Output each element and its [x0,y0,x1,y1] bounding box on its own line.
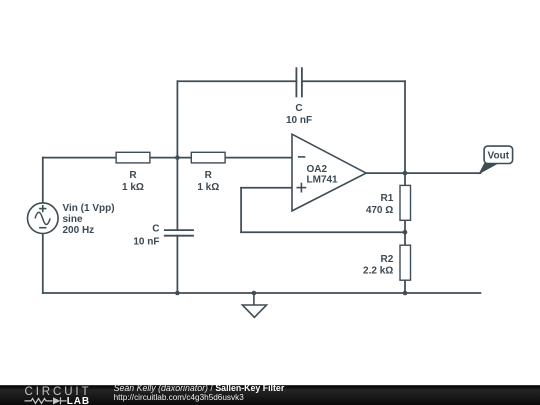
wire: top rail down to output node [404,81,406,173]
svg-text:R: R [205,170,213,181]
svg-text:2.2 kΩ: 2.2 kΩ [363,265,393,276]
svg-text:10 nF: 10 nF [286,115,312,126]
net flag Vout [480,146,513,173]
svg-text:Seán Kelly (daxorinator) / Sal: Seán Kelly (daxorinator) / Sallen-Key Fi… [114,383,285,393]
voltage source Vin [28,203,59,234]
wire: bottom rail [43,292,481,294]
capacitor C (middle, to ground) [164,230,194,236]
wire: R1 to divider node [404,220,406,232]
wire: source top to top rail [42,158,44,204]
ground [242,291,266,318]
capacitor C (top feedback) [296,67,302,97]
svg-text:R1: R1 [381,193,394,204]
svg-text:http://circuitlab.com/c4g3h5d6: http://circuitlab.com/c4g3h5d6usvk3 [114,393,245,402]
node: middle capacitor bottom junction [175,291,180,296]
svg-text:470 Ω: 470 Ω [366,205,393,216]
node A junction dot [175,155,180,160]
svg-text:R: R [129,170,137,181]
op-amp OA2 [292,134,366,211]
wire: source bottom to bottom rail [42,233,44,293]
svg-text:1 kΩ: 1 kΩ [122,182,144,193]
node: divider junction [403,230,408,235]
svg-text:R2: R2 [381,254,394,265]
node: bottom-right junction [403,291,408,296]
svg-text:1 kΩ: 1 kΩ [197,182,219,193]
svg-text:OA2: OA2 [307,164,328,175]
svg-text:LAB: LAB [67,396,90,405]
resistor R (first) [116,152,150,163]
wire: feedback horizontal to divider node [241,231,405,233]
footer bar [0,385,540,405]
svg-text:C: C [295,103,302,114]
wire: R2 to bottom rail [404,280,406,293]
wire: feedback vertical [240,188,242,232]
svg-text:Vout: Vout [488,151,510,162]
resistor R2 [400,245,411,280]
node: output junction [403,171,408,176]
wire: node A up to capacitor C [176,81,178,157]
svg-text:LM741: LM741 [307,175,339,186]
wire: middle capacitor down to bottom rail [176,236,178,293]
svg-text:200 Hz: 200 Hz [63,225,95,236]
resistor R (second) [191,152,225,163]
wire: top rail left of C [177,80,296,82]
svg-text:10 nF: 10 nF [133,236,159,247]
svg-text:Vin (1 Vpp): Vin (1 Vpp) [63,203,115,214]
wire: op-amp output [366,172,480,174]
CircuitLab logo [25,386,92,405]
wire: feedback from plus input left [241,187,292,189]
wire: second R to op-amp minus input [225,157,292,159]
wire: top rail right of C [302,80,405,82]
resistor R1 [400,185,411,220]
wire: node A down to middle capacitor C [176,158,178,231]
wire: top-left horizontal to R [43,157,116,159]
wire: R to node A [150,157,191,159]
wire: output node to R1 [404,173,406,185]
label Vin value [63,203,115,236]
svg-text:C: C [152,224,159,235]
wire: divider node to R2 [404,232,406,245]
svg-text:sine: sine [63,214,83,225]
